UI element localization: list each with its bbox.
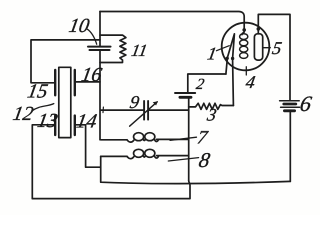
svg-text:6: 6: [298, 91, 313, 116]
label 2: [195, 76, 206, 93]
electrode 16 plate: [74, 70, 76, 95]
electrode 13 plate: [54, 116, 56, 135]
svg-text:8: 8: [197, 148, 212, 172]
wire: bottom return B (lower): [32, 180, 190, 198]
leader from 12 to crystal: [32, 104, 54, 111]
label 3: [205, 105, 218, 125]
svg-text:7: 7: [196, 127, 211, 148]
wire: cap 9 right to V2: [149, 109, 189, 111]
svg-text:2: 2: [195, 76, 206, 93]
label 7: [196, 127, 211, 148]
wire: left loop branch (V1 to electrode 15): [31, 40, 100, 83]
label 15: [26, 81, 50, 103]
label 5: [271, 38, 283, 58]
resistor 11 (grid leak, parallel branch): [100, 35, 126, 62]
label 8: [197, 148, 212, 172]
wire: electrode 14 right, down, to coil 8 left leg: [76, 125, 101, 167]
svg-text:11: 11: [130, 41, 149, 60]
capacitor 9 plates: [143, 101, 145, 120]
svg-text:10: 10: [67, 15, 91, 37]
wire: top grid bus from node above C10 to tube grid lead: [100, 12, 244, 29]
label 14: [75, 111, 99, 133]
node dot plate lead at envelope: [257, 27, 261, 31]
label 6: [298, 91, 313, 116]
svg-text:9: 9: [128, 92, 140, 112]
wire: main left vertical V1 upper (top bus to capacitor C10): [99, 12, 101, 47]
leader from 8: [168, 158, 198, 161]
filament terminal dots: [226, 57, 229, 60]
leader from 1: [217, 46, 230, 51]
electrode 15 plate: [54, 70, 56, 95]
label 13: [36, 110, 60, 132]
svg-text:14: 14: [75, 111, 99, 133]
leader from 10 to C10: [87, 29, 97, 44]
tick mark near corner: [102, 107, 104, 113]
filament 1 (inverted V): [227, 34, 234, 58]
wire: bottom bus A (coil8 left leg to battery): [101, 156, 291, 183]
label 1: [206, 44, 218, 64]
svg-text:16: 16: [80, 64, 104, 86]
electrode 14 plate: [74, 116, 76, 135]
wire: battery bottom lead: [289, 112, 291, 181]
leader from 4: [245, 67, 247, 75]
wire: filament left lead: [226, 60, 227, 74]
coil 7 loops: [127, 133, 159, 142]
svg-text:5: 5: [271, 38, 283, 58]
label 12: [11, 103, 35, 125]
label 9: [128, 92, 140, 112]
coil 7 wire: [101, 138, 189, 140]
tube envelope U: [222, 23, 270, 71]
grid helix 4: [240, 34, 248, 59]
wire: filament right lead down to resistor 3: [232, 60, 235, 106]
crystal 12: [59, 67, 71, 137]
cell 2 plates: [175, 92, 195, 94]
svg-text:12: 12: [11, 103, 35, 125]
label 11: [130, 41, 149, 60]
leader from 7: [170, 137, 197, 140]
arrow of variable cap 9: [130, 102, 158, 126]
coil 8 loops: [127, 149, 159, 158]
label 4: [244, 72, 256, 92]
resistor 3: [189, 103, 234, 109]
coil 8 wire: [101, 155, 189, 158]
wire: plate lead up and over to battery: [258, 14, 290, 100]
wire: electrode 13 left and down: [32, 125, 54, 199]
variable capacitor 9 wire left: [101, 109, 144, 111]
wire: V1 lower (below C10 down to coil 7 corner): [99, 50, 101, 140]
leader from 5: [263, 47, 270, 49]
plate 5: [254, 34, 262, 60]
battery 6: [280, 100, 300, 102]
wire: grid lead jog into helix: [242, 32, 244, 35]
wire: vertical V2 (cell 2 bottom down past wire A): [188, 98, 190, 180]
svg-text:15: 15: [26, 81, 50, 103]
label 10: [67, 15, 91, 37]
capacitor C10 plates: [88, 46, 111, 48]
svg-text:13: 13: [36, 110, 60, 132]
cell 2 top lead and filament wire: [188, 74, 226, 92]
svg-text:1: 1: [206, 44, 218, 64]
label 16: [80, 64, 104, 86]
wire: electrode 16 to V1: [76, 81, 100, 83]
node dot on grid lead at tube envelope: [242, 28, 246, 32]
